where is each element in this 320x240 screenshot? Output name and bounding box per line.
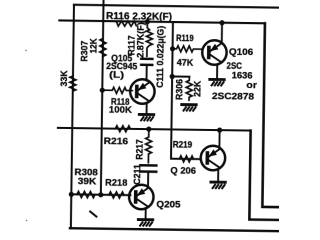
- resistor R218: [109, 192, 124, 198]
- svg-text:R116 2.32K(F): R116 2.32K(F): [106, 11, 172, 23]
- capacitor C111: [141, 59, 152, 65]
- resistor R217: [145, 129, 151, 163]
- resistor R307: [100, 38, 106, 56]
- svg-text:47K: 47K: [177, 58, 194, 68]
- svg-text:Q 206: Q 206: [170, 165, 196, 175]
- resistor R119: [173, 46, 202, 52]
- wire: outer bracket V6: [249, 131, 280, 220]
- node: Q206 collector junction: [217, 127, 222, 132]
- svg-text:2.87K(F): 2.87K(F): [135, 22, 145, 58]
- wire: line B: [59, 20, 265, 23]
- ground Q205: [138, 220, 152, 226]
- resistor R216: [115, 126, 130, 132]
- node: R306 junction on V4: [170, 74, 175, 79]
- svg-text:22K: 22K: [192, 80, 202, 96]
- wire: base line y196: [71, 193, 130, 196]
- wire: V4 mid vertical + R219 branch line: [171, 22, 203, 159]
- svg-text:R306: R306: [174, 79, 184, 100]
- svg-text:12K: 12K: [88, 38, 99, 53]
- wire: Q105 emitter: [146, 103, 148, 114]
- wire: R306 stub: [172, 75, 189, 77]
- svg-text:R217: R217: [134, 139, 144, 160]
- node: R119 junction on V4: [170, 46, 175, 51]
- node: R117 top junction: [145, 19, 150, 24]
- wire: mid horizontal line y129: [58, 128, 251, 131]
- transistor Q106: [202, 40, 227, 65]
- svg-text:R119: R119: [176, 33, 194, 43]
- svg-text:39K: 39K: [78, 176, 97, 186]
- transistor Q205: [129, 185, 154, 210]
- wire: Q206 emitter: [217, 169, 219, 181]
- stray tick mark: [90, 212, 96, 217]
- node: R217 junction: [146, 126, 151, 131]
- wire: left vertical V1: [71, 5, 74, 228]
- node: R308-R218 junction: [98, 192, 103, 197]
- svg-text:2SC: 2SC: [226, 61, 242, 71]
- transistor Q105: [130, 79, 155, 104]
- resistor R116: [116, 21, 136, 26]
- wire: Q106 emitter: [216, 65, 218, 79]
- ground Q206: [211, 182, 225, 188]
- wire: C111 to Q105 collector: [146, 65, 148, 81]
- svg-text:R216: R216: [104, 136, 129, 146]
- resistor R308: [77, 191, 95, 197]
- wire: Q205 emitter: [145, 208, 147, 219]
- wire: C211 to Q205 collector: [147, 172, 149, 187]
- node: R308 left junction: [69, 192, 74, 197]
- capacitor C211: [140, 165, 156, 171]
- svg-text:33K: 33K: [59, 70, 70, 86]
- svg-text:Q106: Q106: [229, 47, 253, 57]
- wire: bottom long line: [70, 228, 279, 231]
- node: Q106 collector junction: [219, 20, 224, 25]
- svg-text:C111 0.022μ(G): C111 0.022μ(G): [155, 26, 166, 88]
- resistor R306: [186, 77, 192, 101]
- node: R118 junction on V2: [100, 88, 105, 93]
- wire: right bracket V5: [262, 23, 282, 207]
- wire: Q206 collector: [218, 130, 220, 147]
- wire: Q106 collector: [221, 23, 223, 43]
- svg-text:Q205: Q205: [156, 199, 180, 209]
- svg-text:R219: R219: [173, 140, 193, 150]
- ground Q106: [210, 79, 224, 85]
- resistor 33K: [70, 76, 76, 91]
- resistor R219: [179, 156, 193, 162]
- svg-text:or: or: [246, 80, 257, 90]
- wire: vertical V2 (R307 line): [101, 0, 104, 195]
- ground Q105: [139, 114, 153, 120]
- svg-text:(L): (L): [109, 70, 124, 81]
- ground R306: [182, 105, 196, 111]
- wire: top line A: [74, 5, 283, 8]
- resistor R118: [102, 87, 132, 93]
- svg-text:100K: 100K: [109, 104, 132, 114]
- svg-text:1636: 1636: [232, 70, 253, 80]
- svg-text:2SC2878: 2SC2878: [212, 91, 254, 102]
- speck noise: [25, 50, 27, 52]
- svg-text:C211: C211: [132, 164, 142, 185]
- transistor Q206: [201, 146, 226, 171]
- resistor R117: [146, 22, 152, 57]
- svg-text:R218: R218: [105, 177, 127, 187]
